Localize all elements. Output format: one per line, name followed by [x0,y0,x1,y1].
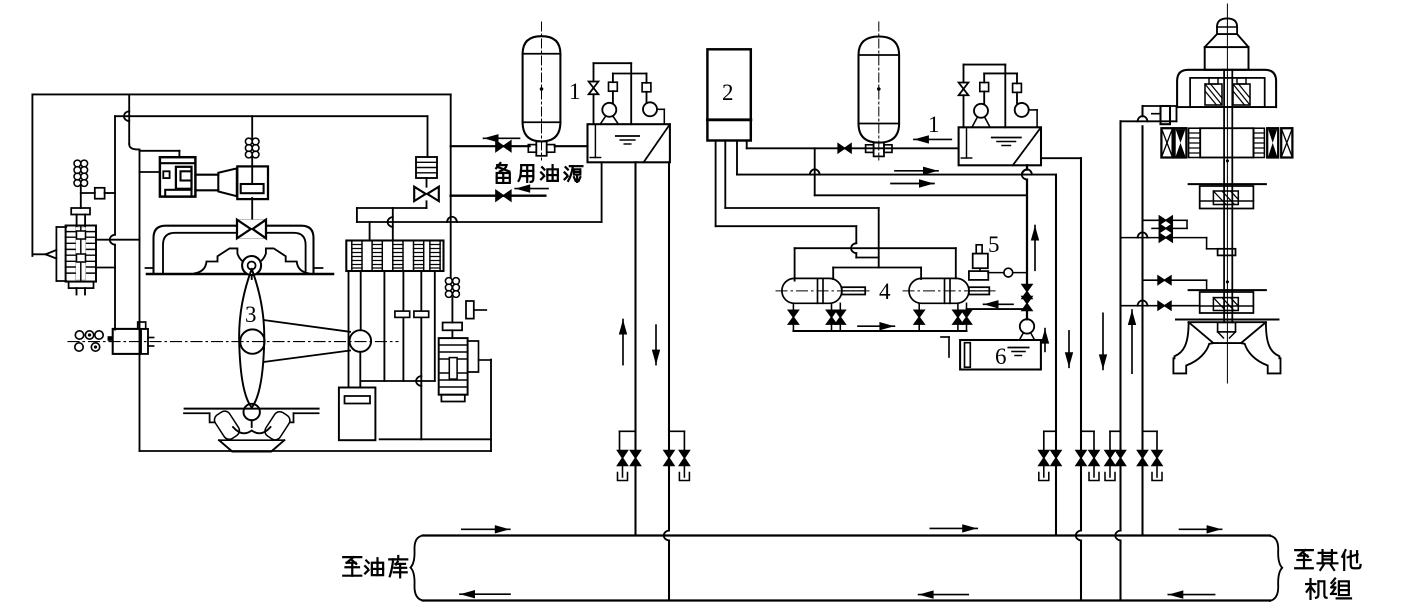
junction box [95,188,105,199]
wire: outer port line [795,247,956,249]
wire: lever rod [360,271,362,330]
arch end ticks [146,267,154,269]
flow arrow [484,137,520,139]
pressure device 2 [707,49,750,140]
wire: branch to suction header [814,148,816,195]
motor cone [218,168,237,196]
hop V1 over supply main [1115,531,1120,541]
pendulum top bar [71,208,90,215]
tank1 oil level [616,135,639,137]
wire: outer feed drop [855,226,857,243]
drive chain dots [75,331,83,339]
draft tube left [1173,323,1213,373]
throttle valve V-T (white) [237,220,267,239]
accumulator A1 [523,36,561,141]
wire: pivot to lever [251,275,253,279]
wire: pendulum bottom stems [76,288,78,294]
tank6 inlet stub [941,336,949,338]
wire: head top feed [140,150,180,152]
wire: needle to tank [593,94,595,124]
wire: turbine line V2 [1141,106,1143,116]
tank1 suction [594,124,596,157]
wire: inner frame top line [115,115,428,117]
valve on pipe B [496,190,511,201]
flow arrow up [622,320,624,365]
wire: riser R1 [634,162,636,535]
hop R4 over supply main [1076,531,1081,541]
manifold return main [423,599,1270,601]
flow arrow [858,325,894,327]
pressure tank PT1 [588,124,670,162]
strainer legs [1019,333,1023,340]
wire: pipe A [451,145,530,147]
flow arrow [919,594,969,596]
lever 3 body [239,269,264,408]
filter F1 [416,157,437,178]
wire: inner port line [833,267,921,269]
tank2 oil level [992,137,1021,139]
runner crown [1189,322,1266,343]
wire: tank return line [380,438,491,440]
wire: outer frame left vertical [31,94,33,256]
spring stack (restoring) [245,138,252,145]
relief valve 5 [976,245,982,254]
support saddle [233,427,271,433]
shaft [1223,70,1225,323]
upper guide bearing [1189,183,1266,185]
link circle [350,330,372,352]
brace left [411,536,423,601]
accumulator neck [536,141,546,155]
riser valve set L [620,430,636,432]
lever bottom circle [244,404,260,420]
wire: lever to saddle [251,420,253,427]
riser valve set R [669,430,684,432]
pilot valve body [439,338,468,395]
wire: junction to inner vertical [105,192,115,194]
rotor rim [1200,128,1253,157]
stator block far-right [1281,128,1292,157]
pilot bottom plate [441,395,464,402]
throttle valve V-F (white) [414,187,426,201]
spring stack (pilot) [445,278,452,285]
pump 4a valves [792,303,794,311]
valve set on V1 [1110,430,1121,432]
needle valve (white) [589,82,599,95]
wire: riser R4 [1080,158,1082,530]
wire: pump loop 2 [984,72,1017,74]
brace right [1270,536,1282,601]
label: to other units (hand glyphs) [1295,550,1360,599]
flow arrow [460,593,510,595]
wire: motor to throttle valve [251,198,253,221]
screw pump 4b [909,278,969,303]
wire: cabinet feedback vertical [128,94,130,144]
flow arrow down [1102,313,1104,369]
flow arrow [1168,594,1214,596]
exciter cap [1217,18,1237,34]
wire: drain header [361,380,435,382]
pump circle PL [602,103,616,117]
winding right [1254,128,1265,157]
pendulum left bracket [56,226,66,228]
orifice d [395,311,410,317]
flow arrow [1180,528,1222,530]
pilot side bracket [468,341,479,372]
wire: cabinet right edge / pilot drain [490,360,492,451]
wire: needle to tank 2 [963,95,965,127]
wire: filter feed [427,116,429,157]
svg-text:1: 1 [928,112,940,137]
wire: block top port b [392,208,394,241]
label: to oil depot (hand glyphs) [343,556,407,577]
pressure tank PT2 [959,127,1041,165]
lever hub circle [240,329,264,353]
wire: block drain d [402,271,404,381]
spring stack (pendulum) [74,160,81,167]
support pad right [263,409,293,442]
wire: riser R3 [1055,175,1057,536]
wire: pump loop P2 [613,73,647,75]
suction valves [1022,285,1032,299]
needle valve 2 (white) [959,83,969,96]
wire: R4 header [1041,157,1081,159]
exciter shoulders [1205,34,1249,47]
shaft centerline [1226,4,1228,383]
wire: box2 line 3 [736,141,738,175]
bearing feed fitting [1161,106,1171,124]
wire: V2 top run [1143,105,1177,107]
stator block far-left [1161,128,1172,157]
head cover plate [1176,319,1279,321]
wire: suction drop [1026,165,1028,169]
wire: frame-to-pendulum link [32,253,45,255]
lower bearing feed [1143,279,1158,281]
pilot top bar [443,323,463,331]
tank6 oil level [1008,347,1028,349]
pump legs 2 [972,117,978,127]
wire: pendulum to cabinet (upper) [96,239,140,241]
wire: box2 line 2 [724,141,726,209]
exciter body [1205,47,1249,70]
flow arrow [930,527,977,529]
wire: pendulum to inner vertical (lower) [96,267,115,269]
wire: stem to body [76,215,78,228]
flow arrow up [1131,310,1133,373]
lower guide bearing [1189,289,1266,291]
relief float circle [1004,268,1013,277]
bearing oil valves row1 [1143,219,1159,221]
lever arm to valve link [264,320,351,332]
svg-text:6: 6 [995,344,1007,369]
pump circle 2R [1015,103,1029,117]
wire: pressure branch up [356,208,358,222]
wire: inner frame left vertical [114,116,116,235]
wire: 2R outlet [1029,109,1037,111]
generator upper bracket [1177,70,1276,107]
bearing oil valves row3 [1121,237,1159,239]
wire: pilot stem [451,297,453,322]
pole block right [1267,128,1278,157]
pump circle 2L [974,104,988,118]
wire: cabinet bottom line [140,450,492,452]
accumulator 2 neck [874,143,884,157]
wire: block port to tank [348,271,350,388]
svg-text:2: 2 [722,80,734,105]
wire: pump discharge header [793,330,966,332]
support top rails [185,408,319,410]
cam profile [195,248,244,273]
lower bearing drain [1121,305,1158,307]
valve set on V2 [1143,430,1158,432]
wire: V1 top run [1121,120,1177,122]
wire: box-circle stems 2 [983,92,985,104]
wire: header to strainer [967,308,1028,310]
label: backup oil source (hand glyphs) [496,163,582,183]
motor box M1 [237,166,268,199]
wire: lever link to tank [359,352,361,388]
wire: box2 line 1 [715,141,717,227]
winding left [1189,128,1201,157]
thrust pad left [1205,84,1222,105]
arch baseline [147,273,333,276]
pump 4b valves [918,303,920,311]
strainer pump circle [1020,319,1034,333]
pump circle PR [643,102,657,116]
wire: box-circle stems [612,91,614,103]
tank T3 [339,388,376,441]
valve on feed [838,144,851,153]
wire: block drain e [420,271,422,439]
flow arrow down [655,325,657,365]
wire: filter stem [426,178,428,187]
flow arrow up [1044,329,1046,352]
wire: neck to tank1 [555,145,588,147]
pendulum bottom flange [69,282,94,289]
wire: throttle stem [426,201,428,208]
flow arrow up [1034,226,1036,271]
wire: cabinet left box edge [139,150,141,452]
pendulum sleeve body [66,226,96,282]
wire: turbine line V1 [1119,121,1121,530]
pump valve boxes [609,82,618,91]
drive unit box [113,329,140,354]
svg-text:1: 1 [569,79,581,104]
arch outer [154,226,314,274]
flow arrow [984,303,1014,305]
manifold supply main [423,534,1270,536]
pole block left [1175,128,1187,157]
wire: needle riser [593,63,595,81]
wire: stem-junction link [81,192,95,194]
wire: pipe B [451,194,546,196]
wire: outer frame top line [32,93,450,95]
shaft coupling [1218,249,1236,256]
screw pump 4a [782,278,842,303]
flow arrow [462,528,510,530]
valve set on R3 [1044,430,1056,432]
valve set on R4 [1081,430,1094,432]
thrust pad right [1233,84,1250,105]
flow arrow [895,170,938,172]
support cup [219,440,284,451]
pilot sensor box [466,301,474,319]
cam pivot circle [242,256,261,275]
valve on pipe A [496,141,511,152]
support pad left [212,409,242,442]
oil tank 6 [960,340,1041,370]
amplifier head U1 [160,157,196,196]
draft tube right [1241,323,1281,373]
svg-text:3: 3 [245,302,257,327]
bearing oil valves row2 [1152,227,1159,229]
wire: box2 line 4 [746,141,748,149]
flow arrow [914,138,951,140]
wire: relief to suction [1013,272,1027,274]
svg-text:4: 4 [879,279,891,304]
hop on inner vertical [110,235,115,245]
wire: block drain c [383,271,385,381]
accumulator A2 [859,37,900,143]
wire: pressure line riser to tank1 [601,162,603,222]
pump valve boxes 2 [980,83,989,92]
tank2 suction [966,127,968,158]
svg-text:5: 5 [988,232,1000,257]
flow arrow [515,188,548,190]
arch inner [163,233,306,274]
wire: block port f [434,271,436,381]
thrust bearing box [1190,78,1265,107]
wire: relief outlet [988,272,1004,274]
wire: block top port a [369,222,371,241]
axis line (dash-dot) [68,341,398,343]
shaft dots [1226,160,1229,163]
wire: relief loop 2 [964,64,1006,66]
wire: riser R2 [668,162,670,530]
wire: PR outlet [657,108,664,110]
wire: head-motor pipe pair [195,174,218,176]
wire: stack stems [251,116,253,138]
wire: pressure line from tank1 [357,221,602,223]
orifice e [414,311,429,317]
wire: needle riser 2 [963,65,965,83]
wire: head left stub [140,171,160,173]
wire: bar to body [451,330,453,338]
wire: pendulum stem [80,186,82,208]
wire: relief loop P1 [594,62,632,64]
flow arrow [891,183,934,185]
flow arrow down [1068,331,1070,367]
wire: backup feed vertical [450,94,452,277]
wire: inner feed vertical [878,208,880,268]
pump legs [600,116,606,124]
distributing valve block [346,241,443,272]
